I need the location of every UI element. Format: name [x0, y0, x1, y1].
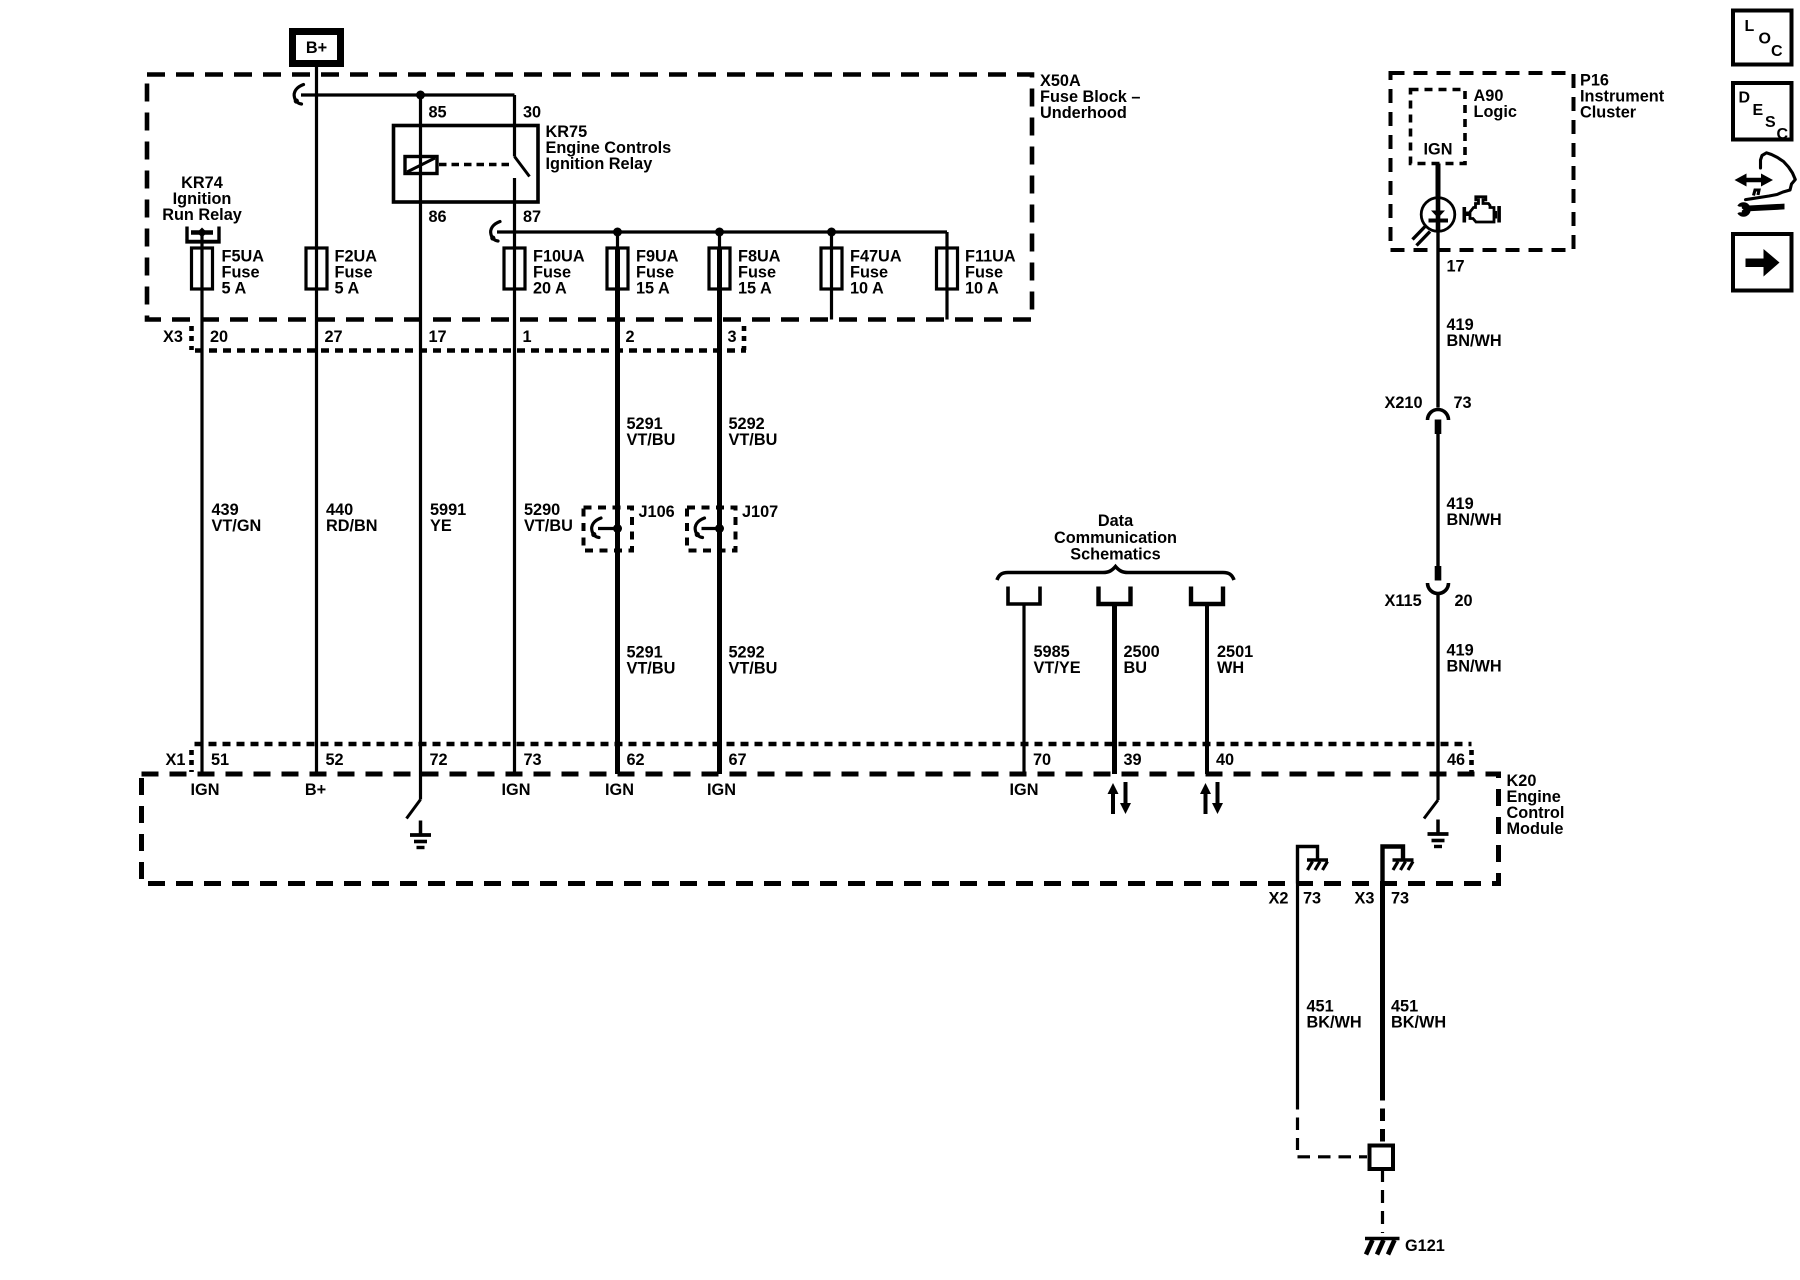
- wire 451 BK/WH label (left): [1307, 998, 1362, 1032]
- hook clip at B+ tap: [294, 85, 303, 105]
- svg-text:15 A: 15 A: [636, 280, 670, 298]
- svg-text:3: 3: [728, 328, 737, 346]
- svg-text:40: 40: [1216, 751, 1234, 769]
- wire 5290 VT/BU label: [524, 501, 573, 535]
- splice J107: [687, 508, 736, 551]
- svg-text:YE: YE: [430, 517, 452, 535]
- icon vehicle data scribble: [1746, 153, 1796, 200]
- ECM internal switch at pin 46: [1424, 774, 1438, 819]
- P16 label: [1580, 72, 1665, 122]
- wire 2500 BU: [1112, 604, 1117, 774]
- fuse block X50A dashed outline: [147, 75, 1032, 320]
- wire 419 BN/WH label (upper): [1447, 316, 1502, 350]
- svg-text:72: 72: [430, 751, 448, 769]
- wire B+ horizontal feed to relay pin 30: [301, 93, 515, 96]
- node to data link schematic (2501): [1191, 587, 1223, 605]
- svg-text:Logic: Logic: [1474, 103, 1517, 121]
- wire 2500 BU label: [1124, 643, 1160, 677]
- ECM ground pigtail X3: [1383, 847, 1414, 884]
- wire 5985 VT/YE label: [1034, 643, 1081, 677]
- svg-text:B+: B+: [305, 781, 326, 799]
- svg-text:VT/BU: VT/BU: [627, 660, 676, 678]
- svg-text:BU: BU: [1124, 659, 1148, 677]
- fuse F2UA: [306, 248, 377, 298]
- wire 5290 VT/BU from 87 through F10UA to ECM pin 73: [513, 232, 516, 774]
- junction on bus at F8UA: [715, 228, 724, 237]
- relay KR75 switch blade: [515, 157, 530, 177]
- wire 419 BN/WH label (lower): [1447, 642, 1502, 676]
- wire 419 BN/WH middle segment: [1436, 434, 1439, 566]
- ground G121: [1365, 1239, 1400, 1255]
- svg-text:Cluster: Cluster: [1580, 104, 1637, 122]
- fuse F5UA: [192, 248, 265, 298]
- connector X1 strip: [192, 744, 1472, 772]
- fuse F47UA: [821, 248, 902, 298]
- svg-text:E: E: [1753, 102, 1764, 119]
- wire 5985 VT/YE: [1022, 604, 1025, 774]
- wire 87 distribution bus: [497, 230, 947, 233]
- svg-text:1: 1: [523, 328, 532, 346]
- svg-text:73: 73: [524, 751, 542, 769]
- wire 451 BK/WH from X2: [1296, 884, 1299, 1098]
- svg-text:S: S: [1765, 114, 1776, 131]
- relay KR75 contact 87 stub: [513, 178, 516, 232]
- A90 label: [1474, 87, 1517, 121]
- svg-text:5 A: 5 A: [222, 280, 247, 298]
- svg-text:VT/GN: VT/GN: [212, 517, 262, 535]
- wire 419 BN/WH lower segment: [1436, 595, 1439, 775]
- ECM internal switch at pin 72: [407, 774, 421, 819]
- junction on bus at F47UA: [827, 228, 836, 237]
- svg-text:86: 86: [429, 208, 447, 226]
- svg-text:17: 17: [429, 328, 447, 346]
- svg-text:20 A: 20 A: [533, 280, 567, 298]
- svg-text:Module: Module: [1507, 820, 1564, 838]
- fuse F9UA: [607, 248, 679, 298]
- fuse F10UA: [504, 248, 585, 298]
- icon double arrow: [1735, 174, 1774, 187]
- svg-text:51: 51: [211, 751, 229, 769]
- icon forward arrow button: [1733, 234, 1792, 291]
- wire 5291 VT/BU lower label: [627, 644, 676, 678]
- svg-text:62: 62: [627, 751, 645, 769]
- svg-text:Communication: Communication: [1054, 529, 1177, 547]
- svg-text:70: 70: [1033, 751, 1051, 769]
- svg-text:VT/BU: VT/BU: [524, 517, 573, 535]
- bidirectional data arrows at pin 39: [1108, 782, 1132, 814]
- check engine icon: [1463, 197, 1501, 223]
- svg-text:Run Relay: Run Relay: [162, 206, 242, 224]
- svg-text:10 A: 10 A: [850, 280, 884, 298]
- icon LOC button: [1733, 11, 1792, 65]
- svg-text:X3: X3: [163, 328, 183, 346]
- wire from B+ down into fuse block (440 RD/BN feed): [315, 67, 318, 774]
- wire indicator to pin 17: [1436, 231, 1439, 408]
- svg-text:52: 52: [326, 751, 344, 769]
- wire 451 BK/WH label (right): [1391, 998, 1446, 1032]
- svg-text:C: C: [1771, 43, 1783, 60]
- connector X3 strip: [192, 326, 747, 351]
- indicator LED (MIL lamp): [1413, 198, 1455, 246]
- svg-text:IGN: IGN: [191, 781, 220, 799]
- relay KR74 label: [162, 174, 242, 224]
- wire 2501 WH: [1205, 604, 1209, 774]
- svg-text:5 A: 5 A: [335, 280, 360, 298]
- wire 87 bus drop to F47UA: [830, 232, 833, 320]
- svg-text:VT/BU: VT/BU: [729, 431, 778, 449]
- splice J106: [584, 508, 633, 551]
- svg-text:C: C: [1777, 126, 1789, 143]
- wire 440 RD/BN label: [326, 501, 378, 535]
- bidirectional data arrows at pin 40: [1200, 782, 1223, 814]
- svg-text:BN/WH: BN/WH: [1447, 511, 1502, 529]
- relay KR74 contact symbol: [185, 227, 220, 242]
- wire 87 bus drop to F11UA: [945, 232, 948, 320]
- icon DESC button: [1733, 83, 1792, 143]
- svg-text:X115: X115: [1385, 592, 1422, 610]
- junction node at relay pin 85 branch: [416, 91, 425, 100]
- K20 label: [1507, 772, 1565, 838]
- fuse block X50A label: [1040, 72, 1140, 122]
- svg-text:87: 87: [523, 208, 541, 226]
- svg-text:15 A: 15 A: [738, 280, 772, 298]
- splice node square: [1370, 1146, 1394, 1170]
- logic module A90 dashed box: [1411, 90, 1466, 164]
- svg-text:IGN: IGN: [1424, 141, 1453, 159]
- ECM ground pigtail X2: [1298, 847, 1329, 884]
- wire KR74 output through F5UA: [200, 233, 203, 775]
- svg-text:D: D: [1739, 90, 1751, 107]
- wire to ground G121: [1381, 1169, 1384, 1233]
- svg-text:2: 2: [626, 328, 635, 346]
- ground inside ECM at pin 72: [419, 821, 423, 835]
- svg-text:20: 20: [210, 328, 228, 346]
- svg-text:WH: WH: [1217, 659, 1244, 677]
- svg-text:Ignition Relay: Ignition Relay: [546, 155, 653, 173]
- svg-text:B+: B+: [306, 39, 327, 57]
- data communication schematics note: [1054, 512, 1177, 563]
- relay KR75 label: [546, 123, 672, 173]
- svg-text:J107: J107: [742, 503, 778, 521]
- svg-text:20: 20: [1455, 592, 1473, 610]
- node to data link schematic (2500): [1099, 587, 1131, 605]
- svg-text:L: L: [1745, 18, 1755, 35]
- svg-text:27: 27: [325, 328, 343, 346]
- wire relay pin 30 drop: [513, 95, 516, 157]
- svg-text:VT/YE: VT/YE: [1034, 659, 1081, 677]
- svg-text:Data: Data: [1098, 512, 1134, 530]
- svg-text:85: 85: [429, 104, 447, 122]
- fuse F11UA: [937, 248, 1016, 298]
- icon wrench: [1734, 202, 1785, 216]
- wire relay pin 85 coil feed: [419, 95, 422, 774]
- svg-text:O: O: [1759, 31, 1771, 48]
- wire 5292 VT/BU lower label: [729, 644, 778, 678]
- junction on bus at F9UA: [613, 228, 622, 237]
- svg-text:17: 17: [1447, 258, 1465, 276]
- svg-text:Underhood: Underhood: [1040, 104, 1127, 122]
- inline connector X210: [1428, 410, 1449, 435]
- svg-text:73: 73: [1303, 890, 1321, 908]
- svg-text:J106: J106: [639, 503, 675, 521]
- svg-text:G121: G121: [1405, 1237, 1445, 1255]
- svg-text:X1: X1: [166, 751, 186, 769]
- svg-text:X2: X2: [1269, 890, 1289, 908]
- wire 5292 VT/BU upper: [717, 248, 722, 774]
- svg-text:BK/WH: BK/WH: [1307, 1014, 1362, 1032]
- wire 2501 WH label: [1217, 643, 1253, 677]
- inline connector X115: [1428, 566, 1449, 594]
- node to data link schematic (5985): [1008, 587, 1040, 605]
- svg-text:Schematics: Schematics: [1070, 545, 1161, 563]
- wire 439 VT/GN label: [212, 501, 262, 535]
- svg-text:BK/WH: BK/WH: [1391, 1014, 1446, 1032]
- svg-text:46: 46: [1447, 751, 1465, 769]
- svg-text:39: 39: [1124, 751, 1142, 769]
- battery feed B+ terminal: [293, 32, 341, 64]
- svg-text:IGN: IGN: [605, 781, 634, 799]
- instrument cluster P16 dashed box: [1391, 73, 1574, 250]
- fuse F8UA: [709, 248, 781, 298]
- wire 87 bus drop to F9UA: [616, 232, 619, 248]
- svg-text:X210: X210: [1385, 394, 1423, 412]
- wire 87 bus drop to F8UA: [718, 232, 721, 248]
- svg-text:IGN: IGN: [502, 781, 531, 799]
- ground inside ECM at pin 46: [1436, 820, 1440, 834]
- svg-text:73: 73: [1391, 890, 1409, 908]
- svg-text:30: 30: [523, 104, 541, 122]
- wire 5991 YE label: [430, 501, 466, 535]
- svg-text:67: 67: [729, 751, 747, 769]
- wire 451 BK/WH from X3: [1380, 884, 1385, 1089]
- wire 419 BN/WH label (middle): [1447, 495, 1502, 529]
- svg-text:RD/BN: RD/BN: [326, 517, 378, 535]
- relay KR75 box: [394, 126, 539, 203]
- svg-text:IGN: IGN: [707, 781, 736, 799]
- svg-text:VT/BU: VT/BU: [627, 431, 676, 449]
- wire IGN to indicator: [1436, 164, 1441, 199]
- relay KR75 actuator dashed link: [439, 163, 510, 166]
- wire 5291 VT/BU upper: [615, 248, 620, 774]
- svg-text:VT/BU: VT/BU: [729, 660, 778, 678]
- svg-text:X3: X3: [1355, 890, 1375, 908]
- svg-text:10 A: 10 A: [965, 280, 999, 298]
- svg-text:73: 73: [1454, 394, 1472, 412]
- hook clip at relay 87 output: [491, 222, 500, 242]
- svg-text:IGN: IGN: [1010, 781, 1039, 799]
- svg-text:BN/WH: BN/WH: [1447, 332, 1502, 350]
- data communication brace: [997, 567, 1234, 581]
- svg-text:BN/WH: BN/WH: [1447, 658, 1502, 676]
- relay KR75 coil: [405, 157, 437, 174]
- engine control module K20 dashed box: [142, 774, 1499, 884]
